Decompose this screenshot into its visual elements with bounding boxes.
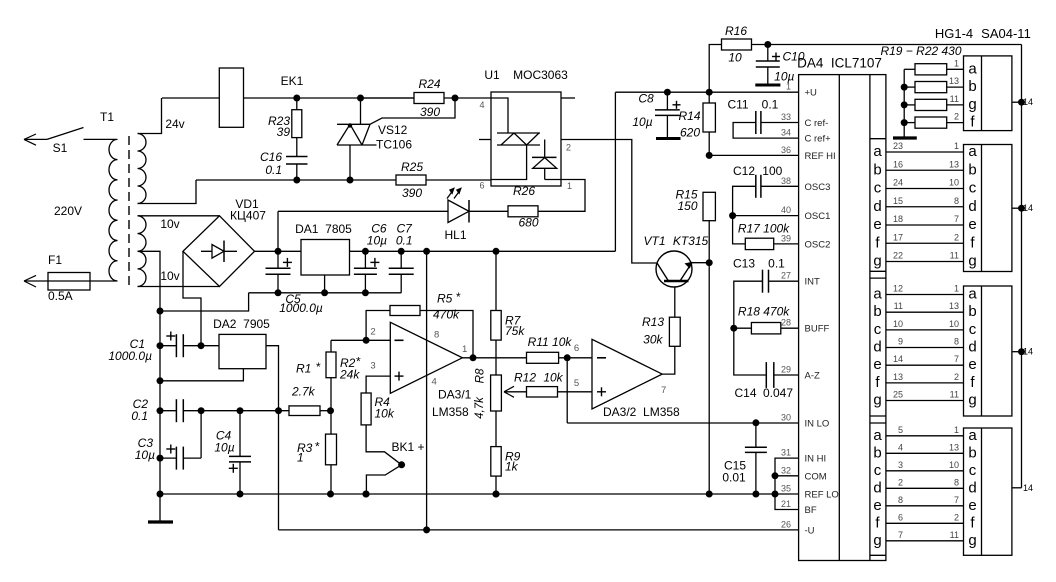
svg-text:620: 620 bbox=[680, 126, 700, 140]
svg-text:c: c bbox=[874, 321, 882, 338]
svg-text:C12: C12 bbox=[733, 164, 755, 178]
svg-text:a: a bbox=[873, 427, 882, 444]
svg-text:11: 11 bbox=[950, 390, 959, 400]
svg-text:R24: R24 bbox=[418, 77, 440, 91]
svg-text:C8: C8 bbox=[638, 92, 654, 106]
svg-text:1: 1 bbox=[462, 344, 467, 355]
svg-text:C ref+: C ref+ bbox=[805, 134, 832, 145]
svg-text:11: 11 bbox=[894, 301, 903, 311]
svg-text:8: 8 bbox=[954, 477, 959, 487]
svg-text:2: 2 bbox=[954, 112, 959, 122]
svg-text:31: 31 bbox=[781, 448, 791, 458]
svg-text:a: a bbox=[968, 143, 977, 160]
svg-text:a: a bbox=[968, 427, 977, 444]
svg-text:1000.0µ: 1000.0µ bbox=[108, 349, 152, 363]
svg-text:10: 10 bbox=[949, 460, 959, 470]
svg-text:8: 8 bbox=[954, 196, 959, 206]
svg-text:*: * bbox=[315, 440, 320, 454]
svg-text:10: 10 bbox=[893, 319, 903, 329]
svg-text:b: b bbox=[968, 161, 976, 178]
svg-text:0.1: 0.1 bbox=[265, 163, 282, 177]
svg-text:BUFF: BUFF bbox=[805, 324, 830, 335]
svg-text:6: 6 bbox=[574, 343, 579, 354]
svg-text:7: 7 bbox=[954, 354, 959, 364]
svg-text:2: 2 bbox=[566, 143, 571, 153]
svg-text:REF HI: REF HI bbox=[805, 151, 836, 162]
svg-text:d: d bbox=[968, 339, 976, 356]
svg-text:c: c bbox=[969, 462, 977, 479]
svg-text:680: 680 bbox=[518, 216, 538, 230]
svg-text:0.5A: 0.5A bbox=[48, 289, 73, 303]
svg-text:220V: 220V bbox=[54, 204, 82, 218]
svg-text:28: 28 bbox=[781, 318, 791, 328]
svg-text:HG1-4: HG1-4 bbox=[935, 26, 973, 41]
svg-text:1: 1 bbox=[954, 284, 959, 294]
svg-text:c: c bbox=[874, 462, 882, 479]
svg-text:1: 1 bbox=[297, 451, 304, 465]
svg-text:-U: -U bbox=[805, 525, 815, 536]
svg-text:C11: C11 bbox=[727, 98, 748, 112]
svg-text:1: 1 bbox=[954, 58, 959, 68]
svg-text:R25: R25 bbox=[401, 160, 423, 174]
svg-text:0.047: 0.047 bbox=[763, 386, 793, 400]
svg-text:F1: F1 bbox=[48, 253, 62, 267]
svg-text:13: 13 bbox=[949, 159, 959, 169]
svg-text:10v: 10v bbox=[160, 217, 179, 231]
svg-text:24k: 24k bbox=[339, 368, 360, 382]
svg-text:R1: R1 bbox=[296, 362, 311, 376]
svg-text:KT315: KT315 bbox=[673, 234, 709, 248]
svg-text:0.1: 0.1 bbox=[131, 409, 148, 423]
svg-text:R12: R12 bbox=[514, 371, 536, 385]
svg-text:38: 38 bbox=[781, 176, 791, 186]
svg-text:15: 15 bbox=[893, 196, 903, 206]
svg-text:34: 34 bbox=[781, 128, 791, 138]
svg-text:TC106: TC106 bbox=[376, 138, 412, 152]
svg-text:d: d bbox=[873, 479, 881, 496]
svg-text:12: 12 bbox=[893, 284, 903, 294]
svg-text:10: 10 bbox=[949, 319, 959, 329]
svg-text:30k: 30k bbox=[643, 333, 663, 347]
svg-text:14: 14 bbox=[1023, 203, 1033, 213]
svg-text:7: 7 bbox=[661, 385, 666, 396]
svg-text:10k: 10k bbox=[543, 371, 563, 385]
svg-text:BK1 +: BK1 + bbox=[392, 440, 425, 454]
svg-text:39: 39 bbox=[277, 125, 291, 139]
svg-text:LM358: LM358 bbox=[432, 405, 469, 419]
svg-text:INT: INT bbox=[805, 277, 821, 288]
svg-text:16: 16 bbox=[893, 159, 903, 169]
svg-text:R5: R5 bbox=[437, 292, 453, 306]
svg-text:24v: 24v bbox=[165, 117, 184, 131]
svg-text:d: d bbox=[873, 198, 881, 215]
svg-text:R14: R14 bbox=[678, 109, 700, 123]
svg-text:10v: 10v bbox=[160, 269, 179, 283]
svg-text:8: 8 bbox=[898, 495, 903, 505]
svg-text:30: 30 bbox=[781, 412, 791, 422]
svg-text:4,7k: 4,7k bbox=[474, 396, 486, 419]
svg-text:11: 11 bbox=[950, 530, 959, 540]
svg-text:g: g bbox=[968, 253, 976, 270]
svg-text:40: 40 bbox=[781, 205, 791, 215]
svg-text:S1: S1 bbox=[53, 141, 68, 155]
svg-text:b: b bbox=[873, 161, 881, 178]
svg-text:b: b bbox=[968, 444, 976, 461]
svg-text:1: 1 bbox=[786, 82, 791, 92]
svg-text:R18 470k: R18 470k bbox=[738, 305, 790, 319]
svg-text:a: a bbox=[873, 143, 882, 160]
svg-text:14: 14 bbox=[1023, 347, 1033, 357]
svg-text:35: 35 bbox=[781, 484, 791, 494]
svg-text:470k: 470k bbox=[433, 308, 460, 322]
svg-text:e: e bbox=[873, 497, 881, 514]
svg-text:2: 2 bbox=[954, 512, 959, 522]
svg-text:11: 11 bbox=[950, 94, 959, 104]
svg-text:390: 390 bbox=[402, 186, 422, 200]
svg-text:5: 5 bbox=[898, 425, 903, 435]
svg-text:2: 2 bbox=[954, 232, 959, 242]
svg-text:C13: C13 bbox=[733, 257, 755, 271]
svg-text:DA3/2 LM358: DA3/2 LM358 bbox=[603, 405, 680, 419]
svg-text:b: b bbox=[968, 303, 976, 320]
svg-text:c: c bbox=[874, 180, 882, 197]
svg-text:EK1: EK1 bbox=[281, 74, 304, 88]
svg-text:*: * bbox=[316, 360, 321, 374]
svg-text:18: 18 bbox=[893, 214, 903, 224]
svg-text:DA2 7905: DA2 7905 bbox=[213, 317, 270, 331]
svg-text:10: 10 bbox=[728, 51, 742, 65]
svg-text:9: 9 bbox=[898, 337, 903, 347]
svg-text:13: 13 bbox=[949, 301, 959, 311]
svg-text:7: 7 bbox=[954, 495, 959, 505]
svg-text:g: g bbox=[873, 253, 881, 270]
svg-text:4: 4 bbox=[898, 442, 903, 452]
svg-text:390: 390 bbox=[420, 105, 440, 119]
svg-text:7: 7 bbox=[898, 530, 903, 540]
svg-text:3: 3 bbox=[898, 460, 903, 470]
svg-text:0.1: 0.1 bbox=[762, 98, 779, 112]
svg-text:c: c bbox=[969, 180, 977, 197]
svg-text:+U: +U bbox=[805, 88, 818, 99]
svg-text:COM: COM bbox=[805, 471, 827, 482]
svg-text:a: a bbox=[968, 60, 977, 77]
svg-text:OSC1: OSC1 bbox=[805, 211, 831, 222]
svg-text:22: 22 bbox=[893, 251, 903, 261]
svg-text:14: 14 bbox=[1023, 483, 1033, 493]
svg-text:2.7k: 2.7k bbox=[291, 385, 316, 399]
svg-text:32: 32 bbox=[781, 465, 791, 475]
svg-text:33: 33 bbox=[781, 112, 791, 122]
svg-text:BF: BF bbox=[805, 505, 817, 516]
svg-text:3: 3 bbox=[370, 361, 375, 372]
svg-text:MOC3063: MOC3063 bbox=[513, 68, 568, 82]
svg-text:13: 13 bbox=[949, 76, 959, 86]
svg-text:HL1: HL1 bbox=[444, 228, 466, 242]
svg-text:e: e bbox=[873, 356, 881, 373]
svg-text:17: 17 bbox=[893, 232, 903, 242]
svg-text:10µ: 10µ bbox=[214, 441, 234, 455]
svg-text:C14: C14 bbox=[734, 386, 756, 400]
svg-text:R13: R13 bbox=[642, 315, 664, 329]
svg-text:4: 4 bbox=[432, 377, 437, 388]
svg-text:25: 25 bbox=[893, 390, 903, 400]
svg-text:VT1: VT1 bbox=[643, 234, 665, 248]
svg-text:b: b bbox=[873, 444, 881, 461]
svg-text:d: d bbox=[873, 339, 881, 356]
svg-text:23: 23 bbox=[893, 141, 903, 151]
svg-text:g: g bbox=[968, 532, 976, 549]
svg-text:C ref-: C ref- bbox=[805, 118, 829, 129]
svg-text:21: 21 bbox=[781, 499, 791, 509]
svg-text:6: 6 bbox=[898, 512, 903, 522]
svg-text:b: b bbox=[968, 78, 976, 95]
svg-text:R26: R26 bbox=[513, 184, 535, 198]
svg-text:R8: R8 bbox=[475, 368, 487, 383]
svg-text:7: 7 bbox=[954, 214, 959, 224]
svg-text:T1: T1 bbox=[100, 110, 114, 124]
svg-text:b: b bbox=[873, 303, 881, 320]
svg-text:8: 8 bbox=[954, 337, 959, 347]
svg-text:e: e bbox=[968, 497, 976, 514]
svg-text:SA04-11: SA04-11 bbox=[981, 26, 1031, 41]
svg-text:10µ: 10µ bbox=[774, 70, 794, 84]
svg-text:1: 1 bbox=[567, 181, 572, 191]
svg-text:10µ: 10µ bbox=[632, 115, 652, 129]
svg-text:100: 100 bbox=[762, 164, 782, 178]
svg-text:2: 2 bbox=[370, 327, 375, 338]
svg-text:R16: R16 bbox=[725, 24, 747, 38]
svg-text:0.01: 0.01 bbox=[722, 471, 746, 485]
svg-text:a: a bbox=[873, 286, 882, 303]
svg-text:1k: 1k bbox=[505, 460, 519, 474]
svg-text:*: * bbox=[356, 355, 361, 369]
svg-text:24: 24 bbox=[893, 178, 903, 188]
svg-text:10µ: 10µ bbox=[135, 448, 155, 462]
svg-text:27: 27 bbox=[781, 271, 791, 281]
svg-text:36: 36 bbox=[781, 145, 791, 155]
svg-text:C16: C16 bbox=[260, 150, 282, 164]
svg-text:10k: 10k bbox=[375, 407, 395, 421]
svg-text:14: 14 bbox=[893, 354, 903, 364]
svg-text:8: 8 bbox=[434, 330, 439, 341]
svg-text:c: c bbox=[969, 321, 977, 338]
svg-text:5: 5 bbox=[574, 378, 579, 389]
svg-text:10: 10 bbox=[949, 178, 959, 188]
svg-text:DA1 7805: DA1 7805 bbox=[295, 222, 352, 236]
svg-text:VS12: VS12 bbox=[378, 123, 408, 137]
svg-text:OSC3: OSC3 bbox=[805, 182, 831, 193]
svg-text:e: e bbox=[968, 216, 976, 233]
svg-text:a: a bbox=[968, 286, 977, 303]
svg-text:U1: U1 bbox=[484, 68, 500, 82]
svg-text:10µ: 10µ bbox=[367, 234, 387, 248]
svg-text:150: 150 bbox=[677, 199, 697, 213]
svg-text:d: d bbox=[968, 198, 976, 215]
svg-text:e: e bbox=[873, 216, 881, 233]
svg-text:29: 29 bbox=[781, 365, 791, 375]
svg-text:OSC2: OSC2 bbox=[805, 239, 831, 250]
svg-text:13: 13 bbox=[893, 372, 903, 382]
svg-text:0.1: 0.1 bbox=[396, 234, 413, 248]
svg-text:6: 6 bbox=[479, 181, 484, 191]
svg-text:0.1: 0.1 bbox=[768, 257, 785, 271]
svg-text:g: g bbox=[873, 392, 881, 409]
svg-text:REF LO: REF LO bbox=[805, 490, 839, 501]
svg-text:4: 4 bbox=[479, 100, 484, 110]
svg-text:14: 14 bbox=[1023, 97, 1033, 107]
svg-text:75k: 75k bbox=[505, 324, 525, 338]
svg-text:1000.0µ: 1000.0µ bbox=[279, 301, 323, 315]
svg-text:R19 − R22 430: R19 − R22 430 bbox=[880, 44, 961, 58]
svg-text:d: d bbox=[968, 479, 976, 496]
svg-text:IN HI: IN HI bbox=[805, 454, 827, 465]
svg-text:R11 10k: R11 10k bbox=[528, 335, 573, 349]
svg-text:g: g bbox=[968, 96, 976, 113]
svg-text:DA4 ICL7107: DA4 ICL7107 bbox=[797, 56, 882, 71]
svg-text:11: 11 bbox=[950, 251, 959, 261]
svg-text:g: g bbox=[873, 532, 881, 549]
svg-text:*: * bbox=[456, 290, 461, 304]
svg-text:e: e bbox=[968, 356, 976, 373]
svg-text:2: 2 bbox=[898, 477, 903, 487]
svg-text:13: 13 bbox=[949, 442, 959, 452]
svg-text:g: g bbox=[968, 392, 976, 409]
svg-text:26: 26 bbox=[781, 519, 791, 529]
svg-text:1: 1 bbox=[954, 141, 959, 151]
svg-text:IN LO: IN LO bbox=[805, 418, 830, 429]
svg-text:DA3/1: DA3/1 bbox=[438, 388, 472, 402]
svg-text:КЦ407: КЦ407 bbox=[230, 209, 266, 223]
svg-text:1: 1 bbox=[954, 425, 959, 435]
svg-text:A-Z: A-Z bbox=[805, 371, 821, 382]
svg-text:39: 39 bbox=[781, 233, 791, 243]
svg-text:2: 2 bbox=[954, 372, 959, 382]
